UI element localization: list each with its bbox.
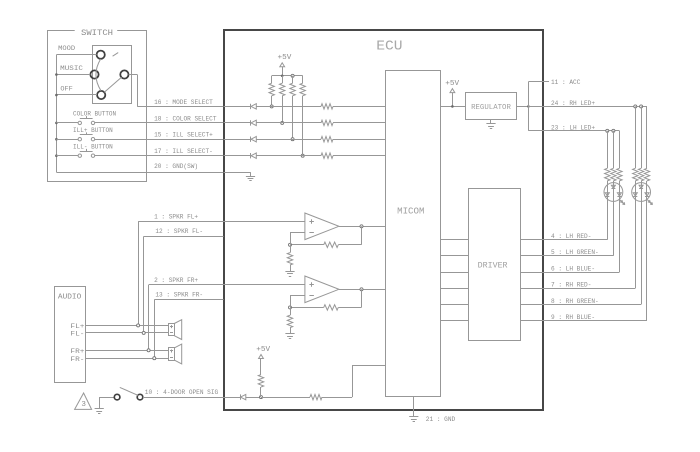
svg-text:SWITCH: SWITCH	[81, 29, 113, 38]
svg-text:+5V: +5V	[256, 346, 271, 354]
svg-text:MUSIC: MUSIC	[60, 65, 83, 72]
svg-text:COLOR BUTTON: COLOR BUTTON	[73, 111, 116, 118]
svg-text:+5V: +5V	[278, 54, 293, 62]
svg-text:DRIVER: DRIVER	[478, 261, 508, 270]
svg-text:+5V: +5V	[445, 80, 460, 88]
svg-text:17 : ILL SELECT-: 17 : ILL SELECT-	[154, 148, 213, 155]
svg-text:6 : LH BLUE-: 6 : LH BLUE-	[551, 266, 595, 273]
svg-text:ECU: ECU	[376, 40, 402, 55]
svg-text:AUDIO: AUDIO	[58, 293, 82, 301]
svg-text:18 : COLOR SELECT: 18 : COLOR SELECT	[154, 115, 217, 122]
svg-text:OFF: OFF	[60, 86, 72, 93]
svg-text:MICOM: MICOM	[397, 206, 424, 216]
svg-text:4 : LH RED-: 4 : LH RED-	[551, 233, 591, 240]
svg-text:12 : SPKR FL-: 12 : SPKR FL-	[155, 228, 203, 235]
svg-text:21 : GND: 21 : GND	[426, 416, 456, 423]
svg-text:MOOD: MOOD	[58, 45, 75, 52]
svg-text:23 : LH LED+: 23 : LH LED+	[551, 125, 595, 132]
svg-text:2 : SPKR FR+: 2 : SPKR FR+	[154, 277, 198, 284]
svg-text:1 : SPKR FL+: 1 : SPKR FL+	[154, 213, 198, 220]
svg-text:FL+: FL+	[70, 323, 84, 330]
svg-text:7 : RH RED-: 7 : RH RED-	[551, 282, 591, 289]
svg-text:13 : SPKR FR-: 13 : SPKR FR-	[155, 292, 203, 299]
svg-text:20 : GND(SW): 20 : GND(SW)	[154, 163, 198, 170]
svg-text:11 : ACC: 11 : ACC	[551, 79, 581, 86]
svg-text:3: 3	[81, 401, 86, 409]
svg-text:REGULATOR: REGULATOR	[471, 104, 512, 112]
svg-text:FL-: FL-	[70, 331, 84, 338]
svg-text:FR-: FR-	[70, 356, 84, 363]
svg-text:9 : RH BLUE-: 9 : RH BLUE-	[551, 314, 595, 321]
svg-text:ILL+ BUTTON: ILL+ BUTTON	[73, 127, 113, 134]
svg-text:16 : MODE SELECT: 16 : MODE SELECT	[154, 99, 213, 106]
svg-text:FR+: FR+	[70, 348, 84, 355]
svg-text:24 : RH LED+: 24 : RH LED+	[551, 100, 595, 107]
svg-text:10 : 4-DOOR OPEN SIG: 10 : 4-DOOR OPEN SIG	[145, 389, 219, 396]
svg-text:15 : ILL SELECT+: 15 : ILL SELECT+	[154, 132, 213, 139]
svg-text:5 : LH GREEN-: 5 : LH GREEN-	[551, 249, 599, 256]
svg-text:8 : RH GREEN-: 8 : RH GREEN-	[551, 298, 599, 305]
svg-text:ILL- BUTTON: ILL- BUTTON	[73, 143, 113, 150]
